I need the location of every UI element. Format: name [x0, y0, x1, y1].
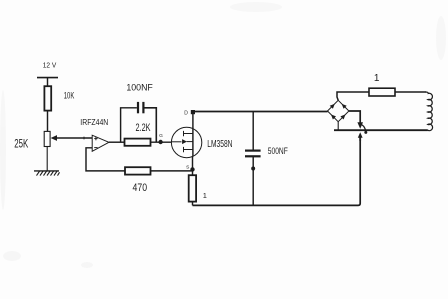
svg-text:25K: 25K: [14, 139, 28, 151]
transistor Q1 MOSFET circle: [171, 127, 201, 157]
resistor 2.2K: [125, 122, 151, 146]
svg-text:LM358N: LM358N: [207, 138, 232, 150]
transistor Q1 label LM358N: [207, 138, 232, 150]
node S junction dot: [190, 167, 194, 171]
wire resistor 1 to bottom rail: [192, 202, 194, 206]
wire coil bottom to junction: [334, 129, 428, 131]
arrow pin end pointing down at junction: [357, 122, 363, 129]
svg-text:G: G: [159, 133, 163, 139]
wire top rail: [193, 111, 328, 113]
wire bridge right corner to down junction: [349, 111, 360, 123]
wire junction down to bottom rail (already part of rail path): [359, 137, 361, 142]
potentiometer 25K: [14, 131, 50, 150]
ground: [34, 171, 60, 176]
wire bridge bottom stub: [337, 122, 339, 130]
potentiometer wiper arrow: [51, 135, 57, 141]
svg-text:2.2K: 2.2K: [136, 122, 151, 134]
wire 500NF bottom branch: [252, 156, 254, 205]
capacitor 100NF: [126, 82, 153, 113]
resistor 1 (source): [189, 175, 207, 201]
wire op-amp output: [109, 141, 125, 143]
node G junction dot: [158, 140, 162, 144]
wire resistor 1 to coil: [395, 91, 426, 93]
wire bridge top to resistor 1: [337, 92, 369, 100]
transistor Q1 internal symbol: [172, 131, 193, 152]
wire 470 to source node: [151, 170, 193, 172]
svg-text:470: 470: [133, 182, 148, 194]
wire R 10K to potentiometer: [47, 111, 49, 132]
arrow pin end pointing up below junction: [358, 132, 363, 138]
wire bottom rail: [193, 138, 361, 206]
power 12V terminal bar: [37, 77, 58, 79]
node D pin label: [184, 110, 188, 116]
wire bridge left stub to rail: [327, 110, 329, 113]
wire 500NF top branch: [252, 112, 254, 151]
resistor 470: [125, 167, 151, 194]
wire potentiometer to ground: [46, 147, 48, 171]
svg-text:500NF: 500NF: [268, 146, 288, 157]
op-amp U1 label IRFZ44N: [80, 118, 108, 127]
wire op-amp - input feedback (down and right): [86, 148, 125, 171]
capacitor 100NF left riser wire: [121, 108, 137, 142]
op-amp U1: [92, 135, 109, 151]
capacitor 100NF right riser wire: [145, 108, 157, 142]
wire source down to resistor: [192, 156, 194, 175]
diode D1 (top-left): [330, 104, 335, 109]
svg-text:10K: 10K: [64, 91, 75, 101]
diode D3 (bottom-left): [331, 114, 336, 119]
node G pin label: [159, 133, 163, 139]
diode D2 (top-right): [342, 104, 347, 109]
svg-text:1: 1: [374, 73, 380, 84]
svg-text:IRFZ44N: IRFZ44N: [80, 118, 108, 127]
resistor 1 (top): [369, 73, 395, 96]
node S pin label: [186, 165, 189, 171]
pin tick with dot on bottom wire: [362, 125, 368, 134]
bridge rectifier diamond: [328, 100, 349, 121]
svg-text:S: S: [186, 165, 189, 171]
svg-text:1: 1: [203, 191, 207, 200]
capacitor 500NF: [245, 146, 288, 157]
svg-text:D: D: [184, 110, 188, 116]
pin tick on + input wire: [83, 137, 85, 140]
svg-text:12 V: 12 V: [43, 60, 57, 69]
wire 12V to R 10K: [47, 78, 49, 87]
wire drain up to top rail: [192, 112, 194, 157]
diode D4 (bottom-right): [340, 114, 345, 119]
resistor 10K: [44, 86, 74, 110]
power 12V label: [43, 60, 57, 69]
junction dot below 500NF: [251, 167, 255, 171]
node D junction dot: [191, 110, 195, 114]
svg-text:100NF: 100NF: [126, 82, 153, 93]
wire wiper to op-amp + input: [57, 137, 93, 139]
inductor coil L1: [426, 92, 433, 131]
wire 2.2K to gate: [151, 141, 172, 143]
